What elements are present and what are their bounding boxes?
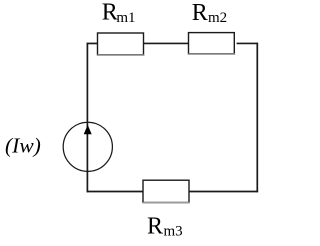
wire top-left horizontal segment xyxy=(87,42,98,44)
svg-text:(Iw): (Iw) xyxy=(5,134,41,158)
wire top middle segment between Rm1 and Rm2 xyxy=(143,42,189,44)
wire top-right horizontal segment xyxy=(237,42,259,44)
svg-text:R: R xyxy=(147,213,163,239)
resistor Rm3 xyxy=(143,180,189,202)
wire bottom-right horizontal segment xyxy=(189,191,259,193)
resistor Rm1 xyxy=(98,33,144,55)
wire left vertical segment (arrow shaft passes through source circle) xyxy=(86,43,88,193)
resistor Rm2 xyxy=(189,33,235,54)
svg-text:m3: m3 xyxy=(164,223,183,239)
current source arrow head xyxy=(84,125,92,134)
wire bottom-left horizontal segment xyxy=(87,191,144,193)
svg-text:R: R xyxy=(192,0,208,26)
svg-text:m2: m2 xyxy=(208,10,227,26)
wire right vertical segment xyxy=(256,43,258,193)
svg-text:m1: m1 xyxy=(116,10,135,26)
current source Iw circle xyxy=(63,122,112,171)
